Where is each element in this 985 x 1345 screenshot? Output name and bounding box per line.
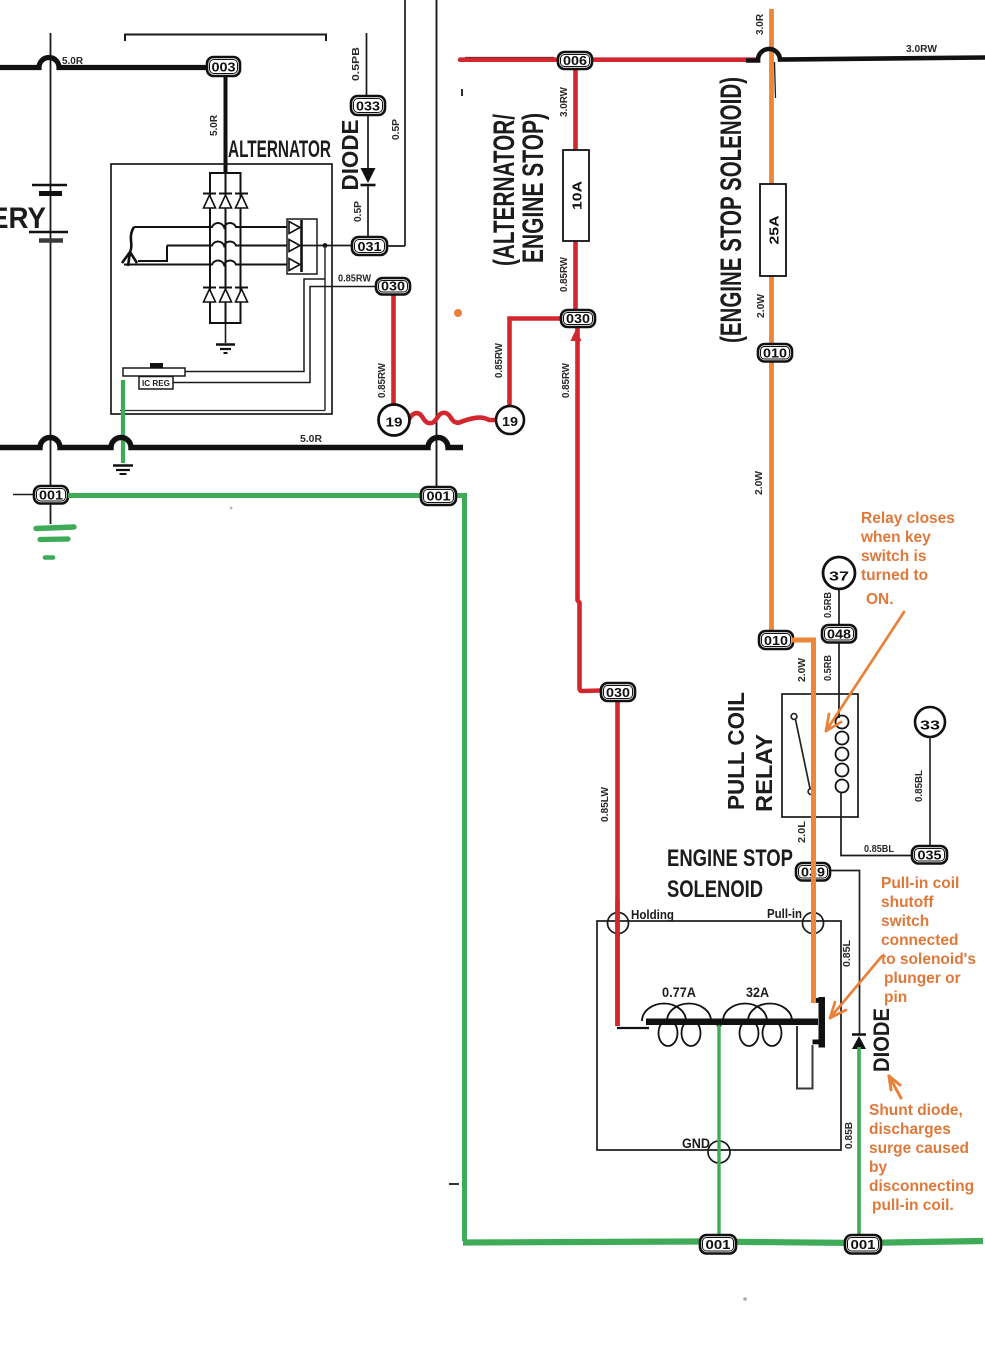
circle terminal 37 [823,557,855,589]
connector 030 #3 [601,683,635,701]
relay coil [838,713,840,718]
svg-text:shutoff: shutoff [881,894,934,911]
circle terminal 19 right [496,406,524,434]
IC REG wire A [185,279,325,372]
svg-text:32A: 32A [746,985,769,1000]
alternator ground wire [225,323,227,343]
svg-text:to solenoid's: to solenoid's [881,951,976,968]
junction node at coil center [716,1022,721,1027]
red wire 030#2 branch down to 19 [510,319,562,407]
svg-text:DIODE: DIODE [337,120,363,191]
svg-text:5.0R: 5.0R [62,56,84,67]
relay switch contact [791,714,797,720]
long vertical wire to ground bus [436,0,438,488]
wire alternator output to 031 [302,245,353,247]
svg-text:5.0R: 5.0R [209,114,220,136]
svg-text:010: 010 [763,346,787,361]
svg-text:ENGINE STOP: ENGINE STOP [667,845,793,872]
red direction arrowhead [571,329,582,341]
black wire under red top bus [465,57,554,59]
red wire 030 to 19 [391,294,396,406]
svg-text:001: 001 [39,488,63,503]
fuse 25A [760,184,786,276]
output diodes (3, pointing right) [289,220,302,272]
svg-text:0.85BL: 0.85BL [864,844,894,855]
wire 0.5P below diode [367,185,369,238]
orange wire 010#2 to pull-in contact (over 039) [792,640,814,1003]
svg-text:ENGINE STOP): ENGINE STOP) [517,113,550,263]
svg-text:(ENGINE STOP SOLENOID): (ENGINE STOP SOLENOID) [715,77,748,343]
connector 001 #1 [13,494,34,496]
svg-text:0.5P: 0.5P [353,201,364,222]
red wire 006 to fuse [573,68,578,151]
connector 048 [822,625,856,643]
plunger bracket [797,1026,813,1089]
svg-text:2.0W: 2.0W [756,293,767,318]
svg-text:SOLENOID: SOLENOID [667,876,763,903]
IC REG wire B [173,287,376,383]
red wire fuse to 030#2 [573,240,578,311]
connector 039 [796,863,830,881]
wire 031 to 0.5P line [387,245,405,247]
diode D1 symbol [361,168,376,183]
svg-text:discharges: discharges [869,1121,951,1138]
battery feed vertical wire [50,33,52,524]
svg-text:RELAY: RELAY [751,734,777,812]
svg-text:pull-in coil.: pull-in coil. [872,1197,954,1214]
orange main feed 3.0R [769,9,774,185]
svg-text:0.77A: 0.77A [662,985,696,1000]
svg-text:2.0W: 2.0W [754,470,765,495]
svg-text:plunger or: plunger or [884,970,961,987]
wire 048 to relay coil [838,642,840,713]
pull-in coil 32A loops [723,1004,792,1047]
svg-text:001: 001 [851,1237,876,1252]
fuse 10A [563,150,589,241]
svg-text:5.0R: 5.0R [300,434,323,445]
svg-text:0.5RB: 0.5RB [823,592,834,618]
coil core bar [646,1019,818,1026]
svg-text:Relay closes: Relay closes [861,510,955,527]
black bus hump and 3.0RW wire [746,49,985,61]
green wire diode to ground bus [857,1047,861,1242]
svg-text:0.5PB: 0.5PB [351,47,362,81]
Holding terminal [608,913,629,934]
svg-text:0.85RW: 0.85RW [561,362,572,398]
alternator box [111,164,332,414]
svg-text:when key: when key [860,529,931,546]
green wire from IC REG to ground [121,380,125,463]
svg-text:Pull-in: Pull-in [767,906,802,921]
connector 010 #1 [758,344,792,362]
svg-text:ALTERNATOR: ALTERNATOR [228,136,331,163]
svg-text:035: 035 [918,848,942,863]
wire 33 to 035 [929,737,931,847]
battery positive bus 5.0R [0,58,208,68]
black wire under orange [775,62,776,98]
red wire overlay through Holding terminal [615,900,620,1026]
battery BATTERY symbol [32,184,67,187]
svg-text:surge caused: surge caused [869,1140,969,1157]
svg-text:031: 031 [358,239,382,254]
svg-text:10A: 10A [570,180,585,210]
circle terminal 19 left [379,405,410,436]
connector 035 [912,846,947,864]
stator phase wire 3 with jump bumps [124,261,287,265]
red jumper squiggle 19 to 19 [408,413,496,424]
svg-text:030: 030 [606,685,630,700]
red wire 030#2 down to 030#3 [578,327,602,691]
svg-text:IC REG: IC REG [142,379,170,388]
svg-text:19: 19 [386,415,403,430]
circle terminal 33 [915,707,945,737]
red highlighted wire 006 bus [460,57,758,62]
green bottom ground bus [463,1241,983,1243]
red wire 030#3 down to holding coil [615,701,620,1026]
wire 033 to diode [367,115,369,169]
wire: top partial box edge [125,35,326,42]
internal bottom wire [120,410,325,412]
GND terminal [708,1141,730,1163]
connector 001 #4 [845,1235,881,1254]
output diode pack box [287,219,317,274]
pull coil relay box [782,694,858,817]
svg-text:19: 19 [502,414,518,429]
rectifier lower diode row [203,288,248,303]
svg-text:030: 030 [381,279,405,294]
svg-text:0.85LW: 0.85LW [600,786,611,822]
svg-text:pin: pin [884,989,907,1006]
svg-text:switch is: switch is [861,548,926,565]
svg-text:0.85RW: 0.85RW [494,342,505,378]
svg-text:turned to: turned to [861,567,928,584]
stray orange dot [454,309,462,317]
svg-text:0.85L: 0.85L [842,940,853,967]
connector 031 [352,237,387,255]
svg-text:Pull-in coil: Pull-in coil [881,875,959,892]
internal B+ wire [324,246,326,411]
connector 030 #2 [561,310,595,327]
junction node [323,243,328,248]
stator phase wire 1 with jump bumps [134,223,287,227]
svg-text:37: 37 [829,569,849,584]
green wire coil to GND [717,1025,720,1242]
svg-text:switch: switch [881,913,929,930]
engine stop solenoid box [597,921,841,1150]
ground bus 5.0R [0,438,463,448]
shunt diode symbol [852,1033,866,1036]
svg-text:0.5P: 0.5P [391,119,402,140]
svg-text:PULL COIL: PULL COIL [723,692,749,810]
wire 0.5PB [366,33,368,97]
svg-text:GND: GND [682,1136,710,1151]
svg-text:25A: 25A [767,215,782,245]
svg-text:Shunt diode,: Shunt diode, [869,1102,963,1119]
svg-text:001: 001 [706,1237,731,1252]
svg-text:0.85BL: 0.85BL [914,770,925,802]
svg-text:by: by [869,1159,887,1176]
green wire 001 to 001 [68,493,424,498]
svg-text:ON.: ON. [866,591,894,608]
IC REG regulator [123,368,185,376]
stray marks [449,1183,459,1185]
svg-text:0.85RW: 0.85RW [559,256,570,292]
connector 006 [558,52,592,69]
alternator ground symbol [216,343,235,345]
svg-text:030: 030 [566,311,590,326]
annotation arrow to plunger [830,956,882,1018]
connector 010 #2 [759,631,793,649]
annotation arrow to diode [889,1076,901,1098]
orange wire 010 to 010 [769,361,774,632]
svg-text:3.0R: 3.0R [755,13,766,35]
vertical wire 0.5P right of diode [404,0,406,246]
annotation arrow to relay [826,612,904,731]
plunger contact bar [819,997,826,1048]
svg-text:2.0L: 2.0L [797,821,808,843]
svg-text:0.85RW: 0.85RW [338,274,372,285]
relay coil exit wire to 035 [841,792,912,856]
connector 003 [207,57,240,76]
svg-text:010: 010 [764,633,788,648]
svg-text:disconnecting: disconnecting [869,1178,974,1195]
svg-text:DIODE: DIODE [869,1008,894,1072]
svg-text:3.0RW: 3.0RW [559,86,570,117]
svg-text:Holding: Holding [631,907,674,922]
svg-text:2.0W: 2.0W [797,657,808,682]
svg-text:048: 048 [827,627,851,642]
stator bus rectangle [210,173,241,302]
connector 001 #3 [700,1235,736,1254]
green wire right 001 down to bottom bus [456,496,465,1242]
holding coil lead [617,1027,649,1029]
svg-text:006: 006 [563,53,587,68]
svg-text:0.85B: 0.85B [844,1122,855,1149]
Pull-in terminal [803,913,824,934]
hand-drawn green ground [36,527,74,529]
wire 039 to shunt diode [830,871,860,1035]
svg-text:connected: connected [881,932,959,949]
svg-text:033: 033 [356,99,380,114]
holding coil 0.77A loops [642,1004,711,1047]
orange wire fuse 25A to 010 [769,275,774,345]
stator phase wire 2 with jump bumps [167,242,287,246]
phase 2 step wire [138,246,167,262]
connector 030 #1 [376,278,410,295]
svg-text:003: 003 [212,60,236,75]
wire 37 to 048 [838,589,840,626]
wire 5.0R from 003 down to alternator [224,76,228,174]
rectifier upper diode row [203,194,248,209]
svg-text:3.0RW: 3.0RW [906,44,938,55]
connector 033 [351,96,385,115]
stator star point [130,227,134,252]
connector 001 #2 [421,487,456,505]
svg-text:001: 001 [427,489,451,504]
svg-text:33: 33 [920,718,940,733]
svg-text:0.5RB: 0.5RB [823,655,834,681]
svg-text:0.85RW: 0.85RW [377,362,388,398]
svg-text:ERY: ERY [0,202,46,235]
ground symbol under bus [113,464,133,466]
